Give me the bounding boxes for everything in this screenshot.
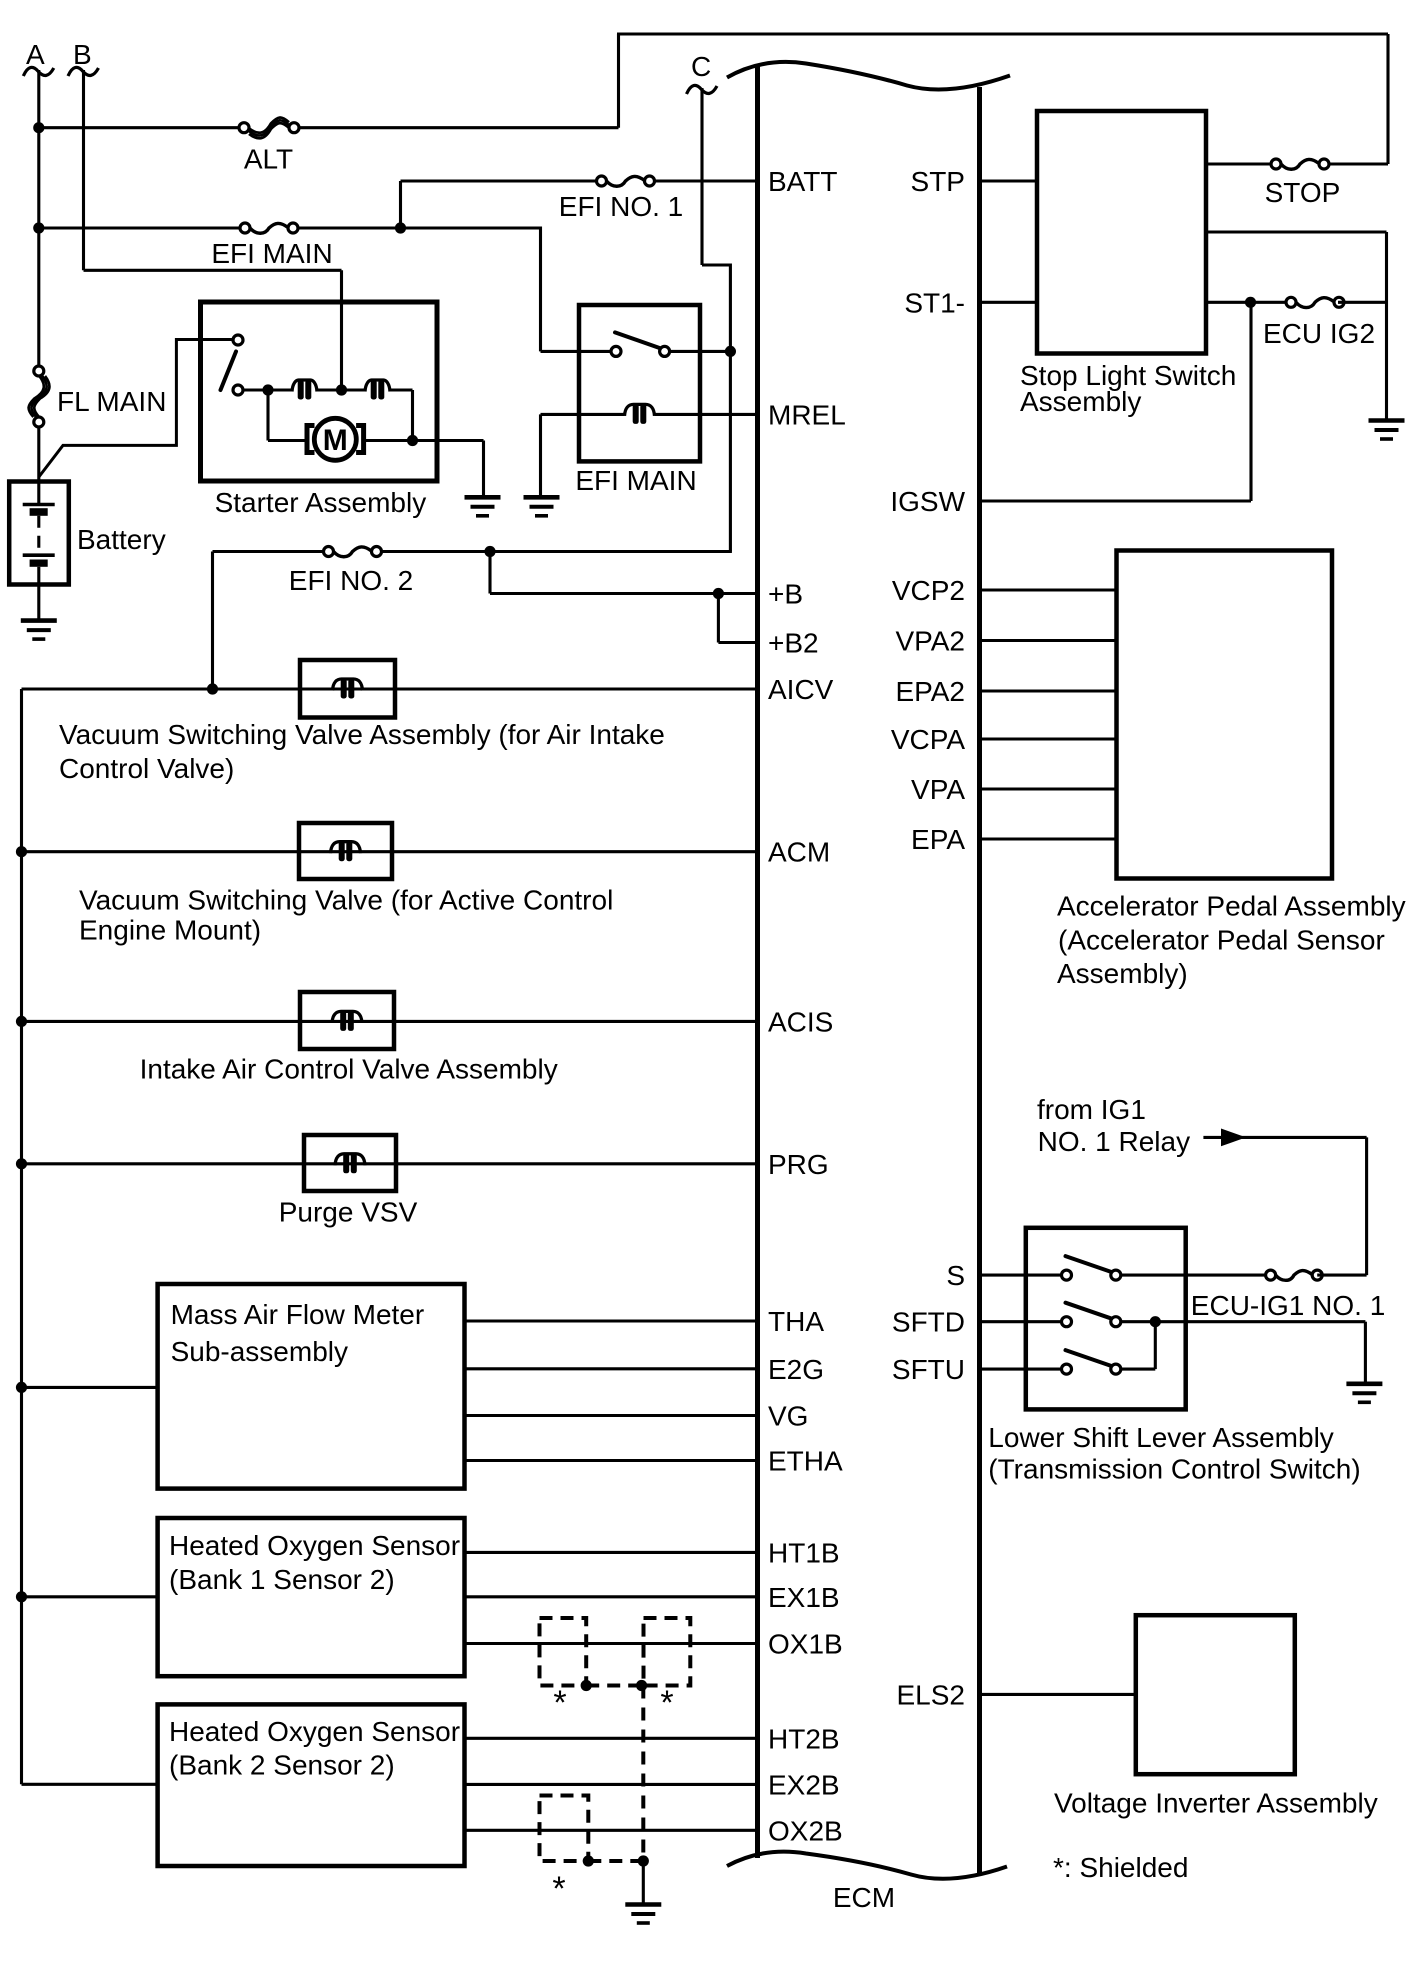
wire top loop vertical right <box>1386 34 1389 164</box>
wire ALT feed (A to top loop) <box>39 126 619 129</box>
battery box <box>9 482 69 585</box>
junction A-EFI MAIN <box>33 222 44 233</box>
junction EFI NO.2 - AICV <box>207 683 218 694</box>
ECM bottom wave <box>727 1852 1007 1879</box>
svg-text:EPA: EPA <box>911 824 965 855</box>
wire C elbow <box>702 263 730 266</box>
svg-text:Battery: Battery <box>77 524 166 555</box>
ECM left edge <box>755 64 760 1858</box>
relay coil <box>625 404 655 416</box>
svg-text:SFTD: SFTD <box>892 1307 965 1338</box>
wire top loop horizontal <box>617 32 1388 35</box>
fuse ECU IG2 <box>1291 296 1339 308</box>
shift switch S contact left <box>1062 1270 1072 1280</box>
ground battery <box>21 621 57 640</box>
shift switch SFTD lever <box>1066 1303 1112 1319</box>
wire shield to ground <box>642 1861 645 1904</box>
starter switch contact top <box>233 335 243 345</box>
fuse EFI MAIN <box>245 222 293 234</box>
svg-text:EFI MAIN: EFI MAIN <box>575 465 696 496</box>
wire motor branch down <box>266 390 269 441</box>
wire ETHA <box>465 1459 756 1462</box>
wire EPA2 <box>980 689 1117 692</box>
svg-text:OX1B: OX1B <box>768 1629 843 1660</box>
starter assembly box <box>201 302 438 481</box>
svg-text:HT1B: HT1B <box>768 1537 840 1568</box>
svg-text:STP: STP <box>911 166 965 197</box>
shift switch S contact right <box>1111 1270 1121 1280</box>
wire AICV row <box>22 687 756 690</box>
wire +B2 <box>718 641 755 644</box>
svg-text:(Transmission Control Switch): (Transmission Control Switch) <box>988 1454 1360 1485</box>
svg-text:Sub-assembly: Sub-assembly <box>171 1336 348 1367</box>
wire bus to MAF <box>22 1386 158 1389</box>
svg-text:ACM: ACM <box>768 837 830 868</box>
svg-text:+B2: +B2 <box>768 628 819 659</box>
svg-text:Accelerator Pedal Assembly: Accelerator Pedal Assembly <box>1057 891 1406 922</box>
wire battery to starter (diagonal) <box>39 340 233 478</box>
wire stop switch to ground run <box>1206 230 1387 233</box>
svg-text:OX2B: OX2B <box>768 1815 843 1846</box>
junction bus-HOS1 <box>16 1591 27 1602</box>
wire starter down to motor row <box>411 390 414 441</box>
starter motor bracket right <box>356 426 364 453</box>
svg-text:*: * <box>660 1684 673 1722</box>
VSV ACIS coil <box>332 1011 362 1023</box>
svg-text:BATT: BATT <box>768 166 837 197</box>
wire ST1- out <box>1206 301 1292 304</box>
wire EFI NO.2 left drop <box>211 552 214 690</box>
shield junction OX2B-2 <box>638 1855 649 1866</box>
wire EFI MAIN row down <box>539 227 542 352</box>
starter coil 2 <box>365 380 390 392</box>
svg-text:FL MAIN: FL MAIN <box>57 386 166 417</box>
svg-text:+B: +B <box>768 579 803 610</box>
ECM top wave <box>727 62 1010 90</box>
relay switch contact right <box>660 346 670 356</box>
wire top loop vertical left <box>617 34 620 128</box>
svg-text:VCPA: VCPA <box>891 724 965 755</box>
svg-text:MREL: MREL <box>768 399 846 430</box>
svg-text:NO. 1 Relay: NO. 1 Relay <box>1038 1126 1191 1157</box>
svg-text:ALT: ALT <box>244 144 293 175</box>
junction bus-ACM <box>16 846 27 857</box>
svg-text:HT2B: HT2B <box>768 1723 840 1754</box>
wire SFTD ground drop <box>1364 1322 1367 1384</box>
wire STOP feed <box>1206 162 1276 165</box>
svg-text:Mass Air Flow Meter: Mass Air Flow Meter <box>171 1299 425 1330</box>
wire S <box>980 1274 1062 1277</box>
battery plate long top <box>23 503 55 507</box>
starter motor M1 <box>314 418 356 460</box>
battery plate long bottom <box>23 553 55 557</box>
junction +B branch <box>484 546 495 557</box>
ground stop light switch <box>1369 421 1405 440</box>
wire B vertical <box>82 70 85 270</box>
svg-text:from IG1: from IG1 <box>1037 1094 1146 1125</box>
wire motor output <box>364 439 483 442</box>
svg-text:Lower Shift Lever Assembly: Lower Shift Lever Assembly <box>988 1422 1334 1453</box>
shield box OX1B-1 <box>540 1618 587 1686</box>
junction SFTD-SFTU <box>1150 1316 1161 1327</box>
svg-text:Engine Mount): Engine Mount) <box>79 915 261 946</box>
wire +B <box>490 592 756 595</box>
wire EFI MAIN row <box>39 226 541 229</box>
svg-text:S: S <box>946 1260 965 1291</box>
wire SFTU out <box>1121 1368 1156 1371</box>
starter motor bracket left <box>307 426 315 453</box>
wire ELS2 <box>980 1693 1136 1696</box>
svg-text:VG: VG <box>768 1401 808 1432</box>
VSV ACIS box <box>300 992 394 1049</box>
starter switch contact bottom <box>233 385 243 395</box>
svg-text:Heated Oxygen Sensor: Heated Oxygen Sensor <box>169 1530 460 1561</box>
wire relay coil left <box>541 413 625 416</box>
wire VCPA <box>980 737 1117 740</box>
svg-text:A: A <box>26 39 45 70</box>
wire bus to HOS2 <box>22 1783 158 1786</box>
svg-text:EFI MAIN: EFI MAIN <box>211 238 332 269</box>
heated oxygen sensor 1 box <box>158 1518 465 1676</box>
wire SFTU riser <box>1154 1322 1157 1369</box>
shift switch SFTU contact right <box>1111 1364 1121 1374</box>
lower shift lever box <box>1026 1228 1186 1410</box>
svg-text:EPA2: EPA2 <box>895 676 965 707</box>
wire EFI NO.2 row <box>213 550 732 553</box>
svg-text:VPA2: VPA2 <box>895 626 965 657</box>
svg-text:Assembly: Assembly <box>1020 386 1141 417</box>
junction starter B feed <box>336 384 347 395</box>
wire C vertical <box>700 88 703 265</box>
relay switch lever <box>615 332 661 348</box>
junction ST1- IGSW <box>1245 297 1256 308</box>
battery plate short thick top <box>30 508 48 516</box>
accelerator pedal box <box>1117 551 1333 879</box>
wire starter switch to coil <box>244 388 293 391</box>
mass air flow meter box <box>158 1284 465 1489</box>
svg-text:EFI NO. 1: EFI NO. 1 <box>559 191 683 222</box>
shield drain vertical <box>641 1686 645 1862</box>
wire IG1 arrow run <box>1203 1136 1366 1139</box>
svg-text:*: * <box>553 1684 566 1722</box>
battery dashed center <box>37 516 40 554</box>
shield link OX1B <box>586 1684 641 1688</box>
starter switch lever <box>221 352 237 391</box>
ECM right edge <box>977 87 982 1874</box>
relay switch contact left <box>611 346 621 356</box>
wire OX2B <box>465 1829 756 1832</box>
left bus vertical <box>20 689 23 1784</box>
wire relay coil ground drop <box>539 414 542 497</box>
EFI MAIN relay box <box>579 305 700 461</box>
svg-text:B: B <box>73 39 92 70</box>
svg-text:Assembly): Assembly) <box>1057 958 1188 989</box>
wire A vertical bus <box>37 70 40 371</box>
node B break symbol <box>68 67 99 76</box>
junction +B2 branch <box>713 588 724 599</box>
VSV AICV box <box>300 660 395 718</box>
svg-text:ECU-IG1 NO. 1: ECU-IG1 NO. 1 <box>1191 1290 1385 1321</box>
wire VPA <box>980 787 1117 790</box>
wire starter switch input <box>231 338 234 341</box>
junction relay-C line <box>725 346 736 357</box>
svg-text:ELS2: ELS2 <box>897 1679 966 1710</box>
wire B to starter coil (horizontal) <box>84 269 342 272</box>
junction bus-ACIS <box>16 1016 27 1027</box>
wire starter coil to corner <box>390 388 413 391</box>
svg-text:*: * <box>552 1870 565 1908</box>
wire C down to EFI NO.2 row <box>729 264 732 552</box>
fusible link FL MAIN <box>30 371 48 422</box>
svg-text:EX1B: EX1B <box>768 1582 840 1613</box>
junction motor-output <box>407 435 418 446</box>
svg-text:ACIS: ACIS <box>768 1006 833 1037</box>
shield junction OX1B-1 <box>581 1680 592 1691</box>
shift switch SFTD contact right <box>1111 1317 1121 1327</box>
shift switch S lever <box>1066 1256 1112 1272</box>
svg-text:Purge VSV: Purge VSV <box>279 1197 418 1228</box>
wire IG1 drop to S <box>1365 1137 1368 1275</box>
wire STP <box>980 179 1038 182</box>
svg-text:Vacuum Switching Valve (for Ac: Vacuum Switching Valve (for Active Contr… <box>79 885 613 916</box>
svg-text:EFI NO. 2: EFI NO. 2 <box>289 565 413 596</box>
fuse ECU-IG1 NO. 1 <box>1271 1269 1318 1281</box>
wire VG <box>465 1414 756 1417</box>
svg-text:ETHA: ETHA <box>768 1446 843 1477</box>
shift switch SFTU contact left <box>1062 1364 1072 1374</box>
wire S fuse to IG1 drop <box>1317 1274 1366 1277</box>
svg-text:VPA: VPA <box>911 774 965 805</box>
svg-text:Voltage Inverter Assembly: Voltage Inverter Assembly <box>1054 1787 1378 1818</box>
svg-text:ECU IG2: ECU IG2 <box>1263 318 1375 349</box>
IG1 arrowhead <box>1221 1129 1246 1147</box>
wire starter ground drop <box>482 441 485 498</box>
svg-text:ECM: ECM <box>833 1882 895 1913</box>
wire EX1B <box>465 1595 756 1598</box>
VSV PRG coil <box>335 1154 365 1166</box>
wire SFTU <box>980 1368 1062 1371</box>
wire ACIS row <box>22 1020 756 1023</box>
shift switch SFTD contact left <box>1062 1317 1072 1327</box>
ground lower shift <box>1346 1384 1382 1403</box>
wire IGSW riser <box>1249 302 1252 501</box>
shield junction OX2B-1 <box>583 1855 594 1866</box>
wire A into battery <box>37 426 40 503</box>
junction bus-PRG <box>16 1158 27 1169</box>
wire +B2 drop <box>717 594 720 643</box>
wire OX1B <box>465 1642 756 1645</box>
wire battery to ground <box>37 567 40 621</box>
VSV PRG box <box>304 1135 396 1191</box>
ground EFI MAIN relay <box>524 497 560 516</box>
wire S out <box>1121 1274 1271 1277</box>
svg-text:(Accelerator Pedal Sensor: (Accelerator Pedal Sensor <box>1058 925 1385 956</box>
shield box OX2B <box>540 1796 589 1862</box>
node C break symbol <box>687 85 718 94</box>
svg-text:PRG: PRG <box>768 1149 829 1180</box>
wire VPA2 <box>980 639 1117 642</box>
wire EPA <box>980 837 1117 840</box>
svg-text:STOP: STOP <box>1265 177 1341 208</box>
shift switch SFTU lever <box>1066 1350 1112 1366</box>
voltage inverter box <box>1136 1615 1295 1774</box>
wire HT1B <box>465 1551 756 1554</box>
svg-text:Starter Assembly: Starter Assembly <box>215 487 427 518</box>
svg-text:EX2B: EX2B <box>768 1769 840 1800</box>
battery plate short thick bottom <box>30 560 48 567</box>
fusible link ALT <box>244 119 294 137</box>
shield box OX1B-2 <box>644 1618 691 1686</box>
junction starter motor branch <box>262 384 273 395</box>
wire ST1- <box>980 301 1038 304</box>
shield link OX2B <box>588 1859 643 1863</box>
fuse EFI NO. 1 <box>602 175 650 187</box>
svg-text:THA: THA <box>768 1306 824 1337</box>
wire motor feed left <box>268 439 305 442</box>
fuse EFI NO. 2 <box>329 546 377 558</box>
VSV ACM coil <box>331 842 361 854</box>
svg-text:IGSW: IGSW <box>890 486 965 517</box>
wire relay switch input <box>541 350 612 353</box>
starter coil 1 <box>292 380 317 392</box>
wire SFTD <box>980 1320 1062 1323</box>
wire EX2B <box>465 1783 756 1786</box>
svg-text:E2G: E2G <box>768 1354 824 1385</box>
heated oxygen sensor 2 box <box>158 1704 465 1866</box>
wire B down to starter coil junction <box>340 270 343 390</box>
node A break symbol <box>23 67 54 76</box>
svg-text:AICV: AICV <box>768 674 834 705</box>
wire ECU IG2 to ground run <box>1338 301 1387 304</box>
wire MREL <box>655 413 756 416</box>
wire bus to HOS1 <box>22 1595 158 1598</box>
svg-text:Intake Air Control Valve Assem: Intake Air Control Valve Assembly <box>140 1054 558 1085</box>
wire SFTD out <box>1121 1320 1366 1323</box>
svg-text:Control Valve): Control Valve) <box>59 753 234 784</box>
wire +B drop <box>488 552 491 594</box>
wire HT2B <box>465 1737 756 1740</box>
svg-text:(Bank 2 Sensor 2): (Bank 2 Sensor 2) <box>169 1750 395 1781</box>
svg-text:Vacuum Switching Valve Assembl: Vacuum Switching Valve Assembly (for Air… <box>59 719 665 750</box>
svg-text:ST1-: ST1- <box>904 287 965 318</box>
wire BATT feed <box>401 179 756 182</box>
svg-text:C: C <box>691 51 711 82</box>
svg-text:*: Shielded: *: Shielded <box>1053 1852 1188 1883</box>
junction bus-MAF <box>16 1382 27 1393</box>
stop light switch box <box>1037 111 1206 354</box>
wire THA <box>465 1319 756 1322</box>
ground shield <box>625 1905 661 1924</box>
wire relay switch output <box>670 350 731 353</box>
VSV ACM box <box>299 823 392 879</box>
svg-text:Heated Oxygen Sensor: Heated Oxygen Sensor <box>169 1716 460 1747</box>
ground starter <box>465 497 501 516</box>
wire stop ground drop <box>1385 232 1388 421</box>
svg-text:SFTU: SFTU <box>892 1354 965 1385</box>
VSV AICV coil <box>333 679 363 691</box>
svg-text:VCP2: VCP2 <box>892 575 965 606</box>
svg-text:(Bank 1 Sensor 2): (Bank 1 Sensor 2) <box>169 1564 395 1595</box>
wire ACM row <box>22 850 756 853</box>
fuse STOP <box>1276 158 1324 170</box>
junction EFI NO.1 branch <box>395 222 406 233</box>
shield junction OX1B-2 <box>636 1680 647 1691</box>
wire IGSW <box>980 499 1252 502</box>
wire starter coil mid <box>317 388 365 391</box>
wire EFI NO.1 riser <box>399 181 402 228</box>
wire E2G <box>465 1367 756 1370</box>
junction A-ALT <box>33 122 44 133</box>
wire PRG row <box>22 1162 756 1165</box>
svg-text:M: M <box>323 424 348 457</box>
wire VCP2 <box>980 588 1117 591</box>
